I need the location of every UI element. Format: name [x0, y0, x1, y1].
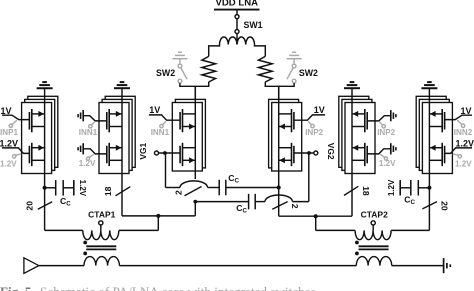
svg-text:1.2V: 1.2V: [0, 138, 18, 148]
svg-text:1V: 1V: [460, 106, 471, 116]
svg-text:2: 2: [290, 204, 300, 209]
svg-text:INN2: INN2: [454, 128, 473, 137]
svg-text:INN1: INN1: [151, 128, 170, 137]
svg-text:1.2V: 1.2V: [0, 160, 17, 169]
svg-text:1V: 1V: [149, 105, 160, 115]
svg-text:18: 18: [103, 186, 113, 196]
svg-text:1V: 1V: [314, 105, 325, 115]
svg-text:SW2: SW2: [156, 68, 175, 78]
svg-text:INN1: INN1: [79, 128, 98, 137]
svg-text:CTAP1: CTAP1: [88, 210, 116, 220]
svg-text:SW1: SW1: [244, 20, 263, 30]
svg-text:1.2V: 1.2V: [79, 159, 96, 168]
svg-text:1.2V: 1.2V: [455, 138, 474, 148]
svg-text:INP2: INP2: [305, 128, 323, 137]
svg-text:VG2: VG2: [326, 143, 336, 160]
svg-text:1.2V: 1.2V: [387, 179, 396, 196]
svg-text:20: 20: [439, 201, 449, 211]
svg-text:Schematic of PA/LNA core with: Schematic of PA/LNA core with integrated…: [40, 284, 319, 291]
svg-text:1V: 1V: [1, 106, 12, 116]
svg-text:SW2: SW2: [299, 68, 318, 78]
svg-text:1.2V: 1.2V: [455, 160, 472, 169]
svg-text:20: 20: [24, 201, 34, 211]
svg-text:1.2V: 1.2V: [78, 180, 87, 197]
svg-text:Fig. 5.: Fig. 5.: [0, 284, 35, 291]
svg-text:2: 2: [173, 190, 183, 195]
svg-text:18: 18: [361, 186, 371, 196]
svg-text:1.2V: 1.2V: [379, 159, 396, 168]
svg-text:VG1: VG1: [138, 142, 148, 159]
svg-text:VDD LNA: VDD LNA: [215, 0, 258, 9]
svg-text:INP2: INP2: [377, 128, 395, 137]
svg-text:INP1: INP1: [0, 128, 18, 137]
svg-text:CTAP2: CTAP2: [361, 210, 389, 220]
